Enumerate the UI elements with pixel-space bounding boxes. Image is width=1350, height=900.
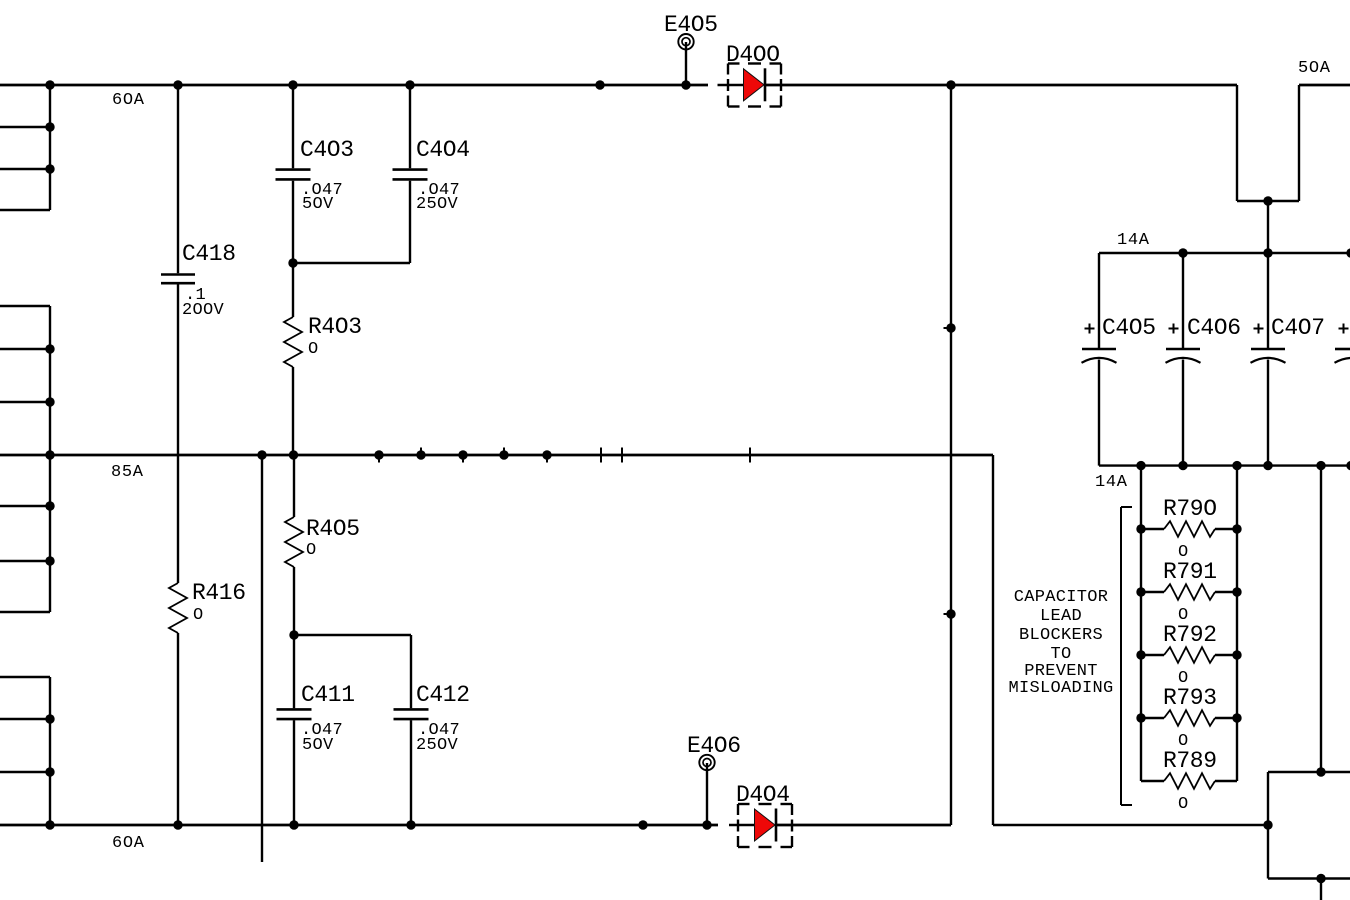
svg-text:R793: R793 — [1163, 685, 1217, 711]
svg-text:CAPACITOR: CAPACITOR — [1014, 588, 1109, 607]
svg-text:C4O5: C4O5 — [1102, 315, 1156, 341]
svg-text:14A: 14A — [1095, 473, 1128, 492]
svg-text:6OA: 6OA — [112, 91, 145, 110]
svg-text:C4O7: C4O7 — [1271, 315, 1325, 341]
svg-text:R791: R791 — [1163, 559, 1217, 585]
svg-text:85A: 85A — [111, 463, 144, 482]
svg-text:14A: 14A — [1117, 231, 1150, 250]
svg-text:R4O5: R4O5 — [306, 516, 360, 542]
svg-text:C4O6: C4O6 — [1187, 315, 1241, 341]
svg-text:D4OO: D4OO — [726, 42, 780, 68]
svg-text:C411: C411 — [301, 682, 355, 708]
svg-text:C412: C412 — [416, 682, 470, 708]
svg-text:O: O — [306, 541, 317, 560]
svg-text:O: O — [193, 606, 204, 625]
svg-text:LEAD: LEAD — [1040, 607, 1082, 626]
svg-text:C4O3: C4O3 — [300, 137, 354, 163]
svg-text:5OA: 5OA — [1298, 59, 1331, 78]
svg-text:E4O6: E4O6 — [687, 733, 741, 759]
svg-text:E4O5: E4O5 — [664, 12, 718, 38]
svg-text:25OV: 25OV — [416, 195, 459, 214]
svg-text:MISLOADING: MISLOADING — [1008, 679, 1113, 698]
svg-text:O: O — [1178, 795, 1189, 814]
svg-text:R416: R416 — [192, 580, 246, 606]
svg-text:25OV: 25OV — [416, 736, 459, 755]
svg-text:D4O4: D4O4 — [736, 782, 790, 808]
svg-text:R789: R789 — [1163, 748, 1217, 774]
svg-text:C418: C418 — [182, 241, 236, 267]
svg-text:5OV: 5OV — [302, 736, 334, 755]
svg-text:2OOV: 2OOV — [182, 301, 225, 320]
svg-text:R792: R792 — [1163, 622, 1217, 648]
svg-text:5OV: 5OV — [302, 195, 334, 214]
svg-text:O: O — [308, 340, 319, 359]
svg-text:R79O: R79O — [1163, 496, 1217, 522]
svg-text:BLOCKERS: BLOCKERS — [1019, 626, 1103, 645]
svg-text:6OA: 6OA — [112, 834, 145, 853]
svg-text:R4O3: R4O3 — [308, 314, 362, 340]
svg-text:C4O4: C4O4 — [416, 137, 470, 163]
